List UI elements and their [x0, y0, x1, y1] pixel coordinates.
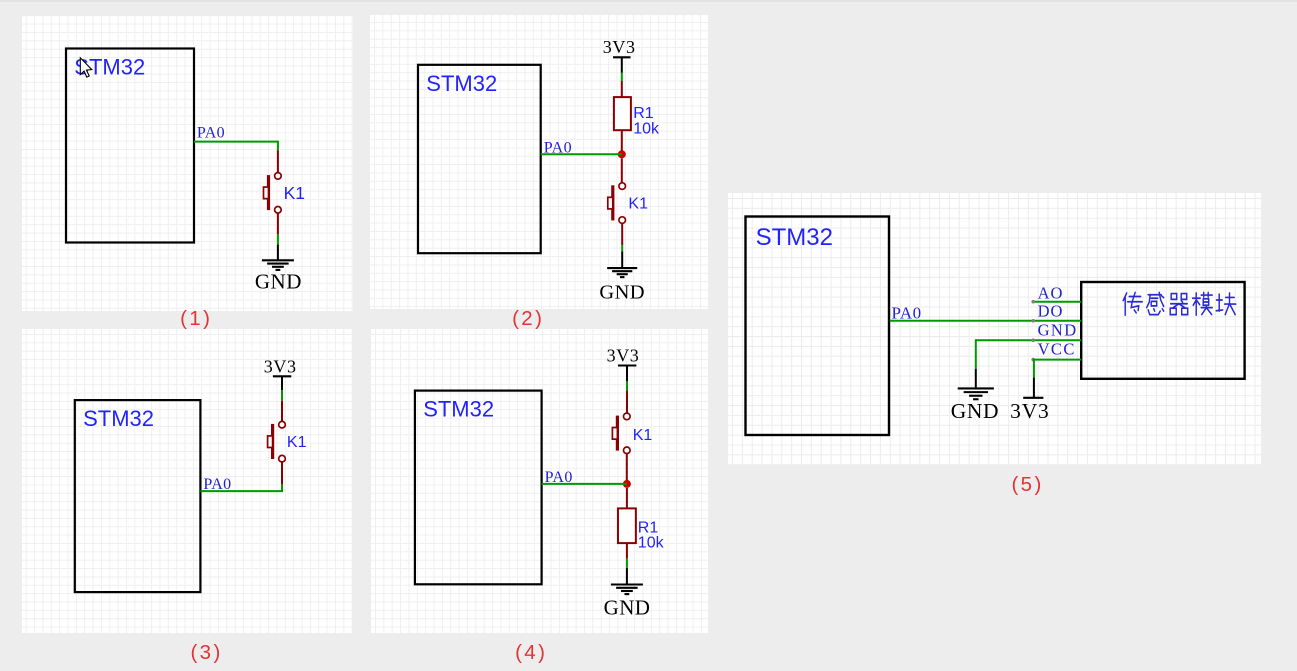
svg-text:STM32: STM32 [426, 71, 497, 96]
svg-text:GND: GND [604, 595, 651, 619]
svg-text:(3): (3) [190, 641, 222, 664]
svg-text:R1: R1 [633, 105, 654, 122]
svg-text:PA0: PA0 [545, 469, 573, 486]
svg-text:STM32: STM32 [83, 406, 154, 431]
svg-text:GND: GND [951, 399, 999, 423]
svg-text:AO: AO [1038, 284, 1064, 303]
svg-text:PA0: PA0 [892, 303, 922, 322]
svg-text:(4): (4) [515, 641, 547, 664]
svg-text:STM32: STM32 [756, 224, 833, 251]
svg-text:GND: GND [599, 281, 645, 303]
svg-text:K1: K1 [633, 427, 653, 444]
svg-text:PA0: PA0 [544, 139, 572, 156]
svg-text:3V3: 3V3 [603, 37, 636, 57]
svg-text:VCC: VCC [1038, 340, 1076, 359]
svg-text:K1: K1 [287, 434, 307, 451]
svg-text:STM32: STM32 [423, 397, 494, 422]
svg-text:10k: 10k [638, 535, 665, 552]
svg-text:GND: GND [1038, 321, 1078, 340]
svg-text:10k: 10k [633, 121, 660, 138]
svg-text:(5): (5) [1011, 473, 1043, 496]
svg-text:PA0: PA0 [203, 476, 231, 493]
svg-text:GND: GND [255, 270, 302, 294]
svg-text:3V3: 3V3 [264, 357, 297, 377]
svg-text:K1: K1 [628, 196, 648, 213]
svg-text:K1: K1 [284, 183, 305, 203]
svg-text:3V3: 3V3 [1010, 399, 1049, 423]
svg-text:PA0: PA0 [197, 125, 225, 142]
svg-text:3V3: 3V3 [607, 345, 640, 365]
svg-text:(2): (2) [512, 307, 544, 330]
svg-text:DO: DO [1038, 302, 1064, 321]
svg-text:(1): (1) [180, 307, 212, 330]
